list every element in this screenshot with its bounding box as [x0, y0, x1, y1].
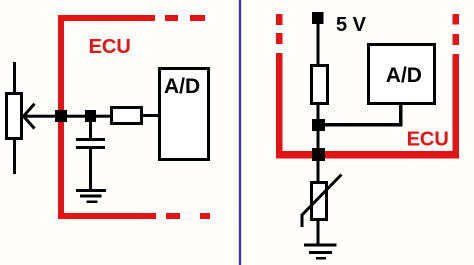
potentiometer P1 body [7, 94, 22, 139]
5V supply terminal square [312, 12, 324, 24]
ECU box left : top bar [58, 15, 155, 21]
resistor R1 (series, horizontal) [112, 108, 142, 124]
node junction J1 on ECU boundary [55, 110, 67, 122]
thermistor diagonal foot [301, 214, 304, 227]
wire J3 down to ECU boundary [317, 131, 320, 148]
wire thermistor to ground [317, 221, 320, 244]
wire 5V to resistor R2 [317, 24, 320, 64]
divider line between left and right schematics [239, 0, 241, 265]
ECU box left : top dash 2 [190, 15, 205, 21]
wire up into A/D [399, 105, 403, 126]
ECU box right : right edge dash 1 [453, 14, 460, 25]
ECU box left : bottom dash 2 [200, 213, 210, 219]
resistor R2 (pull-up, vertical) [312, 66, 328, 104]
ECU box right : right edge solid [453, 54, 460, 158]
capacitor C1 bottom plate [76, 146, 105, 149]
wire capacitor to ground [89, 149, 92, 190]
wire J2 down to capacitor [89, 122, 92, 138]
ECU box left : bottom bar [58, 213, 156, 219]
wire J4 to thermistor [317, 161, 320, 181]
ECU box right : bottom bar [276, 151, 459, 159]
A/D converter box right [369, 45, 435, 104]
svg-text:A/D: A/D [386, 64, 422, 87]
ECU box right : left edge dash 2 [276, 33, 283, 44]
ground symbol left [76, 189, 106, 203]
node junction J3 (signal tap) [312, 119, 325, 131]
ECU box left : bottom dash 1 [166, 213, 180, 219]
ECU box right : left edge solid [276, 53, 283, 158]
wire R1 to A/D [143, 114, 159, 117]
wire R2 to node J3 [317, 105, 320, 119]
node junction J4 on ECU boundary [312, 148, 325, 161]
svg-text:ECU: ECU [89, 36, 131, 58]
A/D converter box left [160, 69, 209, 160]
thermistor diagonal stroke [302, 175, 342, 216]
ground symbol right [304, 244, 337, 260]
wiper arrow line [23, 115, 61, 118]
wire J3 to A/D horizontal [325, 123, 403, 127]
wire J1 to J2 [61, 115, 111, 118]
thermistor RT1 body [312, 183, 327, 220]
ECU box right : left edge dash 1 [276, 14, 283, 25]
ECU box left : top dash 1 [165, 15, 178, 21]
potentiometer bottom lead wire [13, 140, 16, 174]
ECU box left (open right, red) : left bar [58, 15, 64, 219]
node junction J2 (capacitor tap) [85, 110, 96, 122]
svg-text:A/D: A/D [164, 75, 200, 98]
capacitor C1 top plate [76, 138, 105, 141]
wiper arrowhead [24, 104, 35, 129]
ECU box right : right edge dash 2 [453, 34, 460, 45]
potentiometer top lead wire [13, 62, 16, 92]
svg-text:5 V: 5 V [336, 14, 367, 36]
svg-text:ECU: ECU [407, 129, 449, 151]
